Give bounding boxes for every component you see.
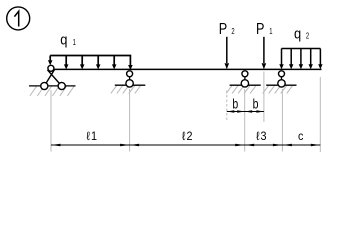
svg-text:ℓ1: ℓ1 xyxy=(86,131,98,144)
svg-text:c: c xyxy=(298,131,304,144)
svg-text:ℓ2: ℓ2 xyxy=(182,131,194,144)
svg-text:2: 2 xyxy=(231,29,234,37)
svg-text:1: 1 xyxy=(73,39,76,47)
svg-text:2: 2 xyxy=(306,33,309,41)
svg-text:ℓ3: ℓ3 xyxy=(256,131,268,144)
svg-text:P: P xyxy=(219,20,227,37)
svg-text:b: b xyxy=(232,96,238,112)
svg-text:b: b xyxy=(253,96,259,112)
svg-text:q: q xyxy=(294,25,301,42)
svg-text:1: 1 xyxy=(269,29,272,37)
svg-text:q: q xyxy=(60,31,67,48)
svg-text:P: P xyxy=(256,20,264,37)
